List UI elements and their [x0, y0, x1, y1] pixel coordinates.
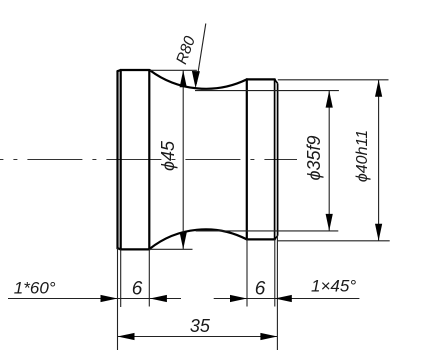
- svg-text:ϕ45: ϕ45: [158, 140, 178, 171]
- dimension line 6 left with leader 1*60: [8, 298, 181, 300]
- dimension line 35: [118, 336, 278, 338]
- extension line left flange edge down: [148, 249, 150, 306]
- extension line dia45 bottom: [150, 248, 193, 250]
- arrow 6-right east: [275, 295, 292, 302]
- arrow 6-right west: [230, 295, 247, 302]
- extension line dia35 bottom: [196, 230, 339, 232]
- part outline: R80 concave bottom: [150, 229, 247, 249]
- svg-text:6: 6: [255, 279, 266, 300]
- arrow 6-left west: [101, 295, 118, 302]
- dimension line 6 right with leader 1x45: [214, 298, 360, 300]
- extension line dia40 top: [278, 79, 389, 81]
- R80 leader line: [196, 24, 206, 85]
- dimension line dia45: [182, 70, 184, 249]
- arrow dia45 up: [180, 70, 187, 87]
- extension line right chamfer circle down: [274, 239, 276, 306]
- extension line right flange left edge down: [246, 239, 248, 307]
- part outline: right end face: [277, 83, 279, 235]
- svg-text:ϕ40h11: ϕ40h11: [354, 130, 371, 182]
- arrow 35 east: [260, 333, 277, 340]
- arrow dia40 down: [375, 224, 382, 241]
- part outline: bottom-left chamfer 1x60: [118, 248, 121, 249]
- part outline: left flange top: [121, 69, 150, 71]
- svg-text:1×45°: 1×45°: [311, 277, 356, 296]
- extension line dia45 top: [150, 69, 197, 71]
- extension line dia35 top: [195, 90, 339, 92]
- extension line left chamfer down: [120, 249, 122, 307]
- part outline: right flange bottom: [247, 238, 275, 240]
- part outline: left flange bottom: [121, 248, 150, 250]
- part outline: top-right chamfer 1x45: [275, 79, 278, 83]
- extension line right end face down: [276, 236, 278, 350]
- arrow dia35 up: [326, 91, 333, 108]
- svg-text:6: 6: [132, 279, 143, 300]
- centerline: [0, 159, 297, 161]
- part outline: right flange left edge: [246, 79, 248, 239]
- svg-text:35: 35: [190, 316, 211, 336]
- arrow dia45 down: [180, 232, 187, 249]
- R80 leader arrow: [192, 71, 200, 88]
- arrow dia40 up: [375, 80, 382, 97]
- arrow 6-left east: [150, 295, 167, 302]
- arrow 35 west: [118, 333, 135, 340]
- part outline: left end face: [116, 71, 118, 248]
- svg-text:1*60°: 1*60°: [14, 279, 56, 298]
- part outline: R80 concave top: [150, 70, 247, 89]
- extension line dia40 bottom: [278, 240, 390, 242]
- part outline: left chamfer circle line: [120, 70, 122, 249]
- part outline: bottom-right chamfer 1x45: [275, 236, 278, 240]
- arrow dia35 down: [326, 214, 333, 231]
- svg-text:ϕ35f9: ϕ35f9: [304, 135, 324, 180]
- extension line left end face down: [117, 248, 119, 350]
- dimension line dia35f9: [328, 91, 330, 231]
- part outline: top-left chamfer 1x60: [118, 70, 121, 71]
- part outline: chamfer-start circle line right: [274, 79, 276, 239]
- dimension line dia40h11: [378, 80, 380, 241]
- part outline: right flange top: [247, 78, 275, 80]
- part outline: left flange right edge: [148, 70, 150, 249]
